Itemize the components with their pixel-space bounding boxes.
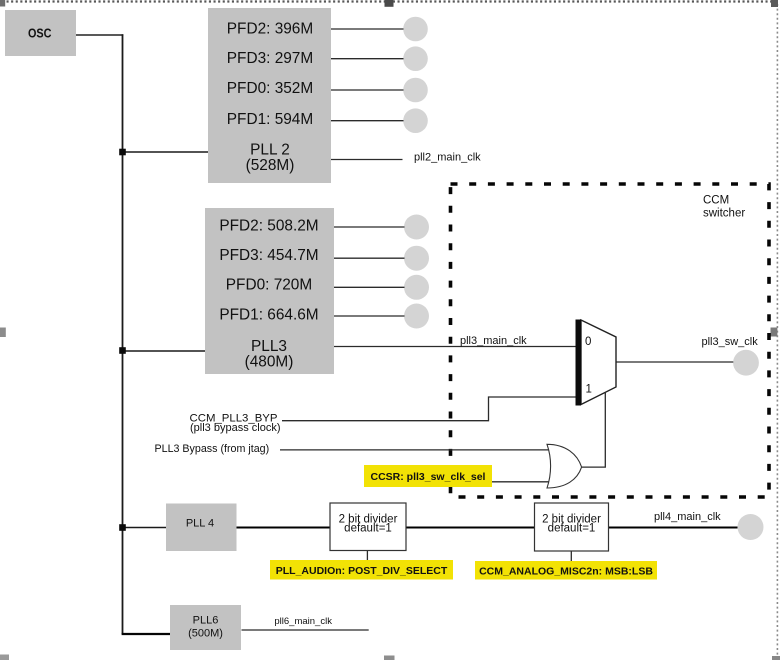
svg-text:PLL_AUDIOn: POST_DIV_SELECT: PLL_AUDIOn: POST_DIV_SELECT bbox=[276, 565, 448, 577]
svg-text:pll4_main_clk: pll4_main_clk bbox=[654, 511, 721, 523]
svg-text:0: 0 bbox=[585, 336, 591, 348]
svg-text:PFD1: 594M: PFD1: 594M bbox=[227, 111, 313, 128]
svg-text:default=1: default=1 bbox=[344, 523, 392, 535]
svg-text:PLL 4: PLL 4 bbox=[186, 518, 214, 530]
svg-text:PLL6: PLL6 bbox=[193, 614, 219, 626]
svg-text:switcher: switcher bbox=[703, 208, 745, 220]
svg-text:PFD3: 297M: PFD3: 297M bbox=[227, 50, 313, 67]
svg-text:(500M): (500M) bbox=[188, 628, 223, 640]
svg-text:PFD1: 664.6M: PFD1: 664.6M bbox=[219, 307, 318, 324]
svg-text:1: 1 bbox=[586, 384, 592, 396]
svg-text:CCM: CCM bbox=[703, 195, 729, 207]
svg-text:CCM_ANALOG_MISC2n: MSB:LSB: CCM_ANALOG_MISC2n: MSB:LSB bbox=[479, 566, 653, 578]
svg-text:PFD0: 352M: PFD0: 352M bbox=[227, 80, 313, 97]
svg-text:(pll3 bypass clock): (pll3 bypass clock) bbox=[190, 422, 280, 434]
svg-text:(480M): (480M) bbox=[245, 354, 294, 371]
svg-text:PFD3: 454.7M: PFD3: 454.7M bbox=[219, 247, 318, 264]
svg-text:PFD2: 508.2M: PFD2: 508.2M bbox=[219, 218, 318, 235]
svg-text:pll3_main_clk: pll3_main_clk bbox=[460, 335, 527, 347]
svg-text:(528M): (528M) bbox=[246, 157, 295, 174]
svg-text:PFD0: 720M: PFD0: 720M bbox=[226, 276, 312, 293]
svg-text:OSC: OSC bbox=[28, 26, 52, 41]
svg-text:pll2_main_clk: pll2_main_clk bbox=[414, 152, 481, 164]
svg-text:pll3_sw_clk: pll3_sw_clk bbox=[702, 336, 759, 348]
svg-text:PLL3 Bypass (from jtag): PLL3 Bypass (from jtag) bbox=[155, 443, 270, 455]
svg-text:PFD2: 396M: PFD2: 396M bbox=[227, 21, 313, 38]
svg-text:default=1: default=1 bbox=[548, 523, 596, 535]
svg-text:CCSR: pll3_sw_clk_sel: CCSR: pll3_sw_clk_sel bbox=[371, 471, 486, 483]
svg-text:pll6_main_clk: pll6_main_clk bbox=[274, 616, 332, 627]
